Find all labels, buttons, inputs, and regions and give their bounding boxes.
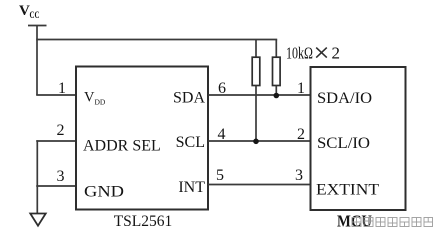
svg-text:DD: DD [95,98,106,107]
junction dot R2/SDA [274,93,280,99]
svg-text:V: V [84,90,95,106]
wire VCC vertical drop [36,26,38,96]
wire SDA net (U1 pin6 to MCU pin1) [208,94,311,96]
resistor R2 lead up [275,40,277,59]
svg-text:SDA: SDA [173,90,205,107]
watermark glyphs (gray) [352,218,433,227]
svg-text:V: V [19,3,30,19]
wire SCL net (U1 pin4 to MCU pin2) [208,140,311,142]
wire INT net (U1 pin5 to MCU pin3) [208,184,311,186]
svg-text:INT: INT [178,179,205,196]
svg-text:TSL2561: TSL2561 [114,213,173,230]
resistor R2 lead down to SDA [275,86,277,96]
svg-text:2: 2 [297,126,305,143]
svg-text:ADDR SEL: ADDR SEL [83,138,161,155]
svg-text:1: 1 [297,80,305,97]
IC U1 TSL2561 box [76,67,208,210]
svg-text:SDA/IO: SDA/IO [317,90,372,107]
wire top rail to pull-up resistors [36,39,277,41]
svg-text:1: 1 [58,80,66,97]
svg-text:GND: GND [84,184,124,201]
svg-text:SCL/IO: SCL/IO [317,135,370,152]
resistor R1 lead down to SCL [255,86,257,142]
VCC power rail bar [28,25,47,27]
svg-text:2: 2 [57,122,65,139]
svg-text:3: 3 [57,168,65,185]
svg-text:SCL: SCL [176,134,205,151]
svg-text:4: 4 [218,126,226,143]
svg-text:CC: CC [30,10,40,20]
svg-text:6: 6 [218,80,226,97]
svg-text:3: 3 [295,167,303,184]
IC U2 MCU box [311,67,406,210]
wire ground branch vertical [36,140,38,213]
resistor R1 lead up [255,40,257,59]
svg-text:2: 2 [332,44,341,63]
resistor R1 body [252,57,260,85]
svg-text:10kΩ: 10kΩ [286,44,313,63]
wire pin3 GND [36,185,77,187]
junction dot R1/SCL [253,139,259,145]
svg-text:5: 5 [216,167,224,184]
svg-text:EXTINT: EXTINT [316,182,379,199]
wire pin1 VDD [36,94,77,96]
resistor R2 body [273,57,281,85]
ground [30,214,45,226]
wire pin2 ADDR SEL [36,140,77,142]
